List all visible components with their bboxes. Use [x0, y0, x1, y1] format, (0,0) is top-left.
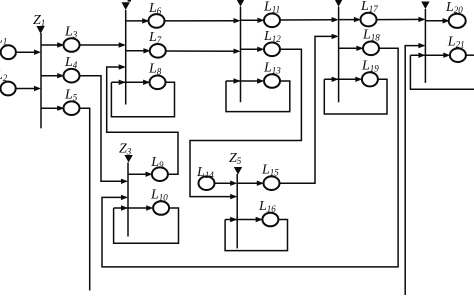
svg-text:L12: L12: [263, 29, 281, 44]
svg-text:L4: L4: [64, 55, 78, 70]
svg-text:L10: L10: [150, 188, 168, 203]
wire L19 feedback box loop: [324, 79, 387, 114]
wire L17 output to bus Z7: [376, 18, 423, 20]
bus Z4: [240, 7, 242, 103]
wire L8 feedback box top into bus Z2: [111, 81, 147, 83]
node L21: [450, 48, 466, 62]
node L20: [449, 14, 466, 28]
input triangle of bus Z3: [124, 155, 132, 163]
node L4: [64, 69, 80, 83]
arrowhead L10 box line into bus Z3: [121, 205, 128, 210]
arrowhead L16 box line into bus Z5: [230, 217, 237, 222]
wire bus Z6 branch to L17: [339, 19, 360, 21]
bus Z2: [125, 10, 127, 105]
arrowhead L14 into bus Z5: [230, 181, 237, 186]
wire L12 output loop feeding bus Z5: [190, 49, 301, 196]
arrowhead L3 into bus Z2: [119, 42, 126, 47]
arrowhead into L7: [143, 48, 150, 53]
wire L18 output big loop feeding bus Z3: [102, 48, 398, 267]
arrowhead L7 into bus Z4: [234, 49, 241, 54]
arrowhead bottom feed into bus Z7: [418, 43, 425, 48]
node L13: [264, 74, 280, 88]
input triangle of bus Z4: [236, 0, 244, 7]
svg-text:L21: L21: [447, 35, 465, 50]
arrowhead L8 box line into bus Z2: [119, 80, 126, 85]
arrowhead L6 into bus Z4: [234, 18, 241, 23]
wire L8 feedback box loop: [111, 82, 174, 117]
wire L15 output loop feeding bus Z6: [279, 36, 337, 183]
svg-text:L18: L18: [362, 28, 380, 43]
arrowhead into L3: [57, 42, 64, 47]
arrowhead L12 loop into bus Z5: [230, 194, 237, 199]
wire bus Z4 branch to L12: [241, 48, 263, 50]
wire L21 feedback box left and bottom clipped at right edge: [410, 55, 474, 89]
node L6: [149, 14, 165, 28]
bus Z3: [127, 163, 129, 237]
wire L21 output clipped at right edge: [466, 54, 474, 56]
arrowhead into L5: [57, 106, 64, 111]
wire bus Z3 branch to L9: [128, 173, 150, 175]
arrowhead L19 box line into bus Z6: [332, 77, 339, 82]
node L2: [1, 82, 16, 96]
arrowhead into L19: [355, 77, 362, 82]
arrowhead into L21: [443, 53, 450, 58]
svg-text:L3: L3: [64, 24, 78, 39]
arrowhead into L16: [256, 217, 263, 222]
svg-text:L17: L17: [360, 0, 378, 14]
svg-text:Z5: Z5: [229, 151, 242, 166]
wire L13 feedback box top into bus Z4: [226, 80, 262, 82]
wire bus Z2 branch to L6: [126, 20, 147, 22]
wire L14 output to bus Z5: [214, 182, 235, 184]
wire L3 output to bus Z2: [79, 44, 124, 46]
arrowhead into L11: [257, 18, 264, 23]
wire bus Z2 branch to L7: [126, 50, 149, 52]
input triangle of bus Z1: [36, 26, 44, 34]
svg-text:L19: L19: [361, 59, 379, 74]
svg-text:Z1: Z1: [33, 13, 45, 28]
wire L21 feedback box top into bus Z7: [410, 54, 448, 56]
input triangle of bus Z2: [122, 2, 130, 10]
arrowhead L18 loop into bus Z3: [121, 195, 128, 200]
svg-text:L16: L16: [258, 199, 276, 214]
svg-text:L1: L1: [0, 32, 7, 47]
wire L13 feedback box loop: [226, 81, 290, 112]
bus Z1: [40, 33, 42, 128]
arrowhead L11 into bus Z6: [332, 17, 339, 22]
svg-text:Z3: Z3: [119, 142, 132, 157]
svg-text:L15: L15: [261, 163, 279, 178]
wire L7 output to bus Z4: [166, 50, 239, 52]
node L16: [262, 213, 278, 227]
node L10: [153, 201, 169, 215]
node L18: [363, 42, 379, 56]
input triangle of bus Z6: [334, 0, 342, 7]
svg-text:L5: L5: [64, 88, 78, 103]
arrowhead L1 into bus Z1: [34, 50, 41, 55]
wire L16 feedback box loop: [225, 220, 287, 251]
svg-text:L8: L8: [148, 62, 162, 77]
bus Z6: [338, 7, 340, 103]
node L11: [264, 13, 280, 27]
arrowhead L21 box line into bus Z7: [418, 53, 425, 58]
arrowhead into L10: [146, 205, 153, 210]
node L9: [152, 167, 168, 181]
arrowhead L15 loop into bus Z6: [332, 34, 339, 39]
arrowhead L17 into bus Z7: [418, 17, 425, 22]
node L1: [1, 45, 16, 59]
arrowhead L9 loop into bus Z2: [119, 64, 126, 69]
wire L10 feedback box loop: [114, 208, 179, 243]
wire bus Z4 branch to L11: [241, 19, 263, 21]
wire bus Z1 branch to L4: [41, 75, 62, 77]
arrowhead L2 into bus Z1: [34, 86, 41, 91]
node L5: [64, 101, 80, 115]
wire bus Z5 branch to L15: [237, 182, 262, 184]
arrowhead into L12: [257, 47, 264, 52]
node L14: [199, 176, 215, 190]
arrowhead into L6: [142, 18, 149, 23]
node L19: [362, 72, 378, 86]
wire L6 output to bus Z4: [164, 20, 238, 22]
svg-text:L9: L9: [150, 155, 164, 170]
svg-text:L11: L11: [263, 0, 280, 15]
wire L5 output running to bottom edge: [79, 108, 89, 290]
svg-text:L2: L2: [0, 68, 8, 83]
node L3: [64, 38, 80, 52]
wire L19 feedback box top into bus Z6: [324, 78, 360, 80]
wire L16 feedback box top into bus Z5: [225, 219, 261, 221]
arrowhead into L4: [57, 73, 64, 78]
input triangle of bus Z5: [234, 167, 242, 175]
wire bus Z7 branch to L20: [425, 20, 448, 22]
svg-text:L7: L7: [148, 30, 162, 45]
wire bus Z1 branch to L5: [41, 107, 62, 109]
wire L11 output to bus Z6: [280, 19, 337, 21]
clipped Z2 label remnant at top edge: [128, 0, 131, 2]
bus Z7: [424, 9, 426, 83]
arrowhead L4 loop into bus Z3: [121, 179, 128, 184]
svg-text:L14: L14: [196, 165, 214, 180]
node L12: [264, 43, 280, 57]
input triangle of bus Z7: [421, 2, 429, 10]
wire L2 output to bus Z1: [16, 88, 40, 90]
wire L9 output loop feeding bus Z2: [107, 67, 178, 174]
arrowhead into L15: [257, 181, 264, 186]
node L17: [361, 13, 377, 27]
node L8: [150, 76, 166, 90]
wire bus Z6 branch to L18: [339, 47, 362, 49]
svg-text:L20: L20: [445, 0, 463, 15]
arrowhead into L20: [443, 18, 450, 23]
wire L1 output to bus Z1: [16, 51, 40, 53]
arrowhead into L13: [257, 78, 264, 83]
node L15: [264, 176, 280, 190]
node L7: [150, 44, 166, 58]
wire bus Z1 branch to L3: [41, 44, 62, 46]
arrowhead into L9: [146, 172, 153, 177]
bus Z5: [236, 174, 238, 248]
arrowhead into L17: [354, 17, 361, 22]
arrowhead into L18: [356, 46, 363, 51]
wire feed from bottom edge into bus Z7: [405, 46, 424, 295]
svg-text:L6: L6: [148, 1, 162, 16]
arrowhead L13 box line into bus Z4: [234, 78, 241, 83]
wire L4 output loop feeding bus Z3: [79, 76, 126, 182]
svg-text:L13: L13: [263, 60, 281, 75]
arrowhead into L8: [143, 80, 150, 85]
wire L10 feedback box top into bus Z3: [114, 207, 151, 209]
